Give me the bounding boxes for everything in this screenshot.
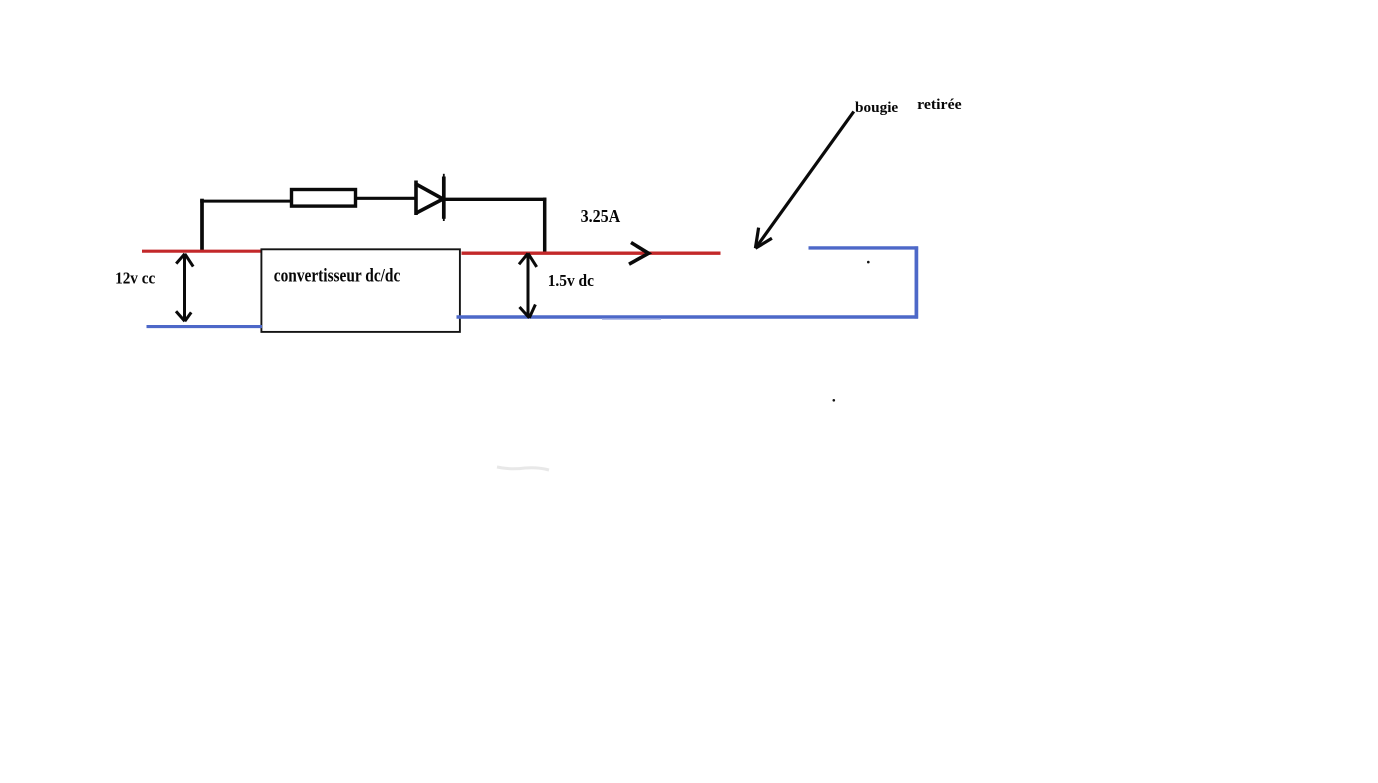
label: convertisseur dc/dc xyxy=(274,266,401,287)
wire xyxy=(200,200,291,203)
converter box U1 xyxy=(261,249,460,332)
svg-text:3.25A: 3.25A xyxy=(581,206,621,226)
svg-text:retirée: retirée xyxy=(917,97,962,113)
node: red +12V rail (left) xyxy=(142,250,262,253)
smudge (faint) xyxy=(497,467,549,470)
arrow: current direction chevron xyxy=(629,243,649,265)
label: 12v cc xyxy=(115,268,155,287)
svg-text:1.5v dc: 1.5v dc xyxy=(548,271,595,290)
wire: blue top right segment xyxy=(809,246,919,249)
wire xyxy=(445,198,546,201)
svg-text:12v cc: 12v cc xyxy=(115,268,155,287)
diode D1 xyxy=(415,174,444,221)
dimension arrow: 1.5v (double-headed) xyxy=(519,253,537,318)
wire: blue right vertical xyxy=(915,246,919,318)
node B: stray dot xyxy=(833,399,836,402)
node: blue return rail (right, bottom) xyxy=(457,315,919,319)
label: 3.25A xyxy=(581,206,621,226)
node: red +1.5V rail (right) xyxy=(462,251,721,254)
svg-text:bougie: bougie xyxy=(855,100,899,116)
label: bougie xyxy=(855,100,899,116)
label: 1.5v dc xyxy=(548,271,595,290)
node: blue return rail (left) xyxy=(147,325,263,328)
dimension arrow: 12v (double-headed) xyxy=(176,254,193,321)
wire xyxy=(543,198,547,254)
label: retiree xyxy=(917,97,962,113)
wire xyxy=(200,199,204,253)
arrow: bougie pointer xyxy=(755,112,853,249)
wire: blue retrace highlight xyxy=(602,318,661,320)
node A: stray dot xyxy=(867,261,870,264)
svg-text:convertisseur dc/dc: convertisseur dc/dc xyxy=(274,266,401,287)
wire xyxy=(357,197,415,200)
resistor R1 xyxy=(292,190,356,207)
